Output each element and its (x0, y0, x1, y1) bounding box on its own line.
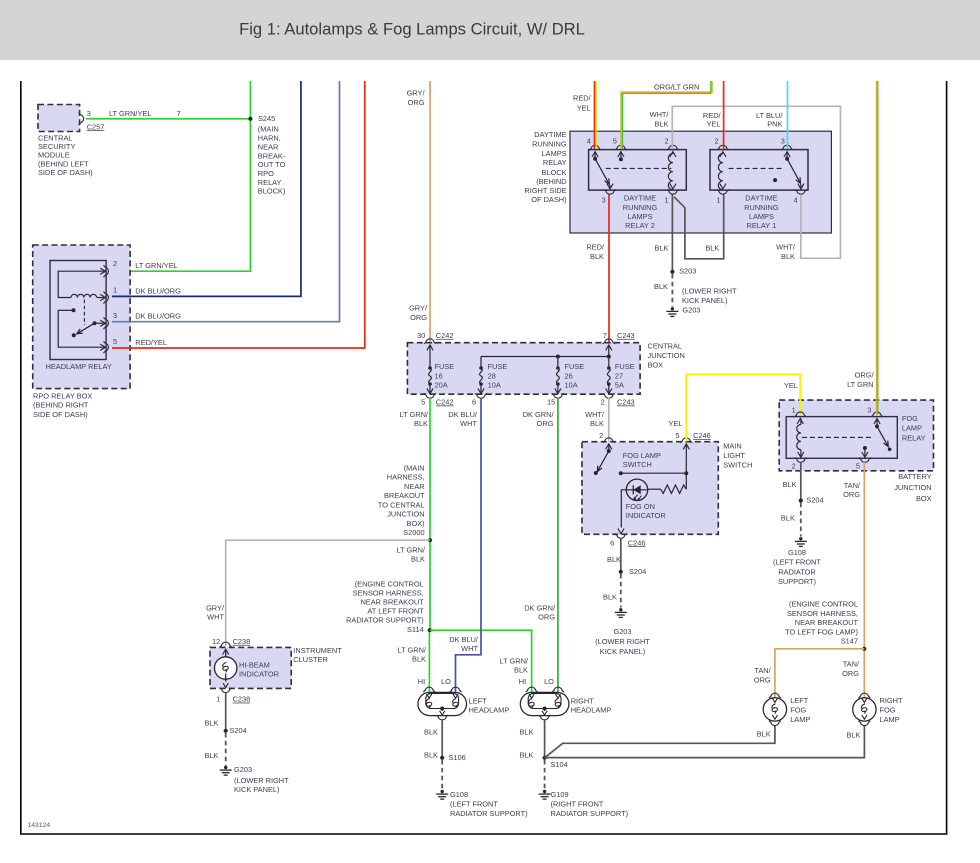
svg-text:ORG: ORG (842, 669, 859, 678)
svg-text:TAN/: TAN/ (844, 481, 861, 490)
svg-text:LO: LO (544, 677, 554, 686)
svg-text:16: 16 (435, 371, 443, 380)
ground G203 (lower right kick panel) (666, 307, 678, 316)
fuse 16 20A (429, 345, 431, 367)
svg-text:G108: G108 (450, 790, 468, 799)
splice S204 (cluster ground) (224, 729, 228, 733)
wire BLK (dashed) : S204 to G203 (620, 574, 622, 608)
svg-text:LAMP: LAMP (790, 715, 810, 724)
svg-text:WHT: WHT (460, 419, 477, 428)
svg-text:LT GRN/: LT GRN/ (500, 656, 529, 665)
svg-text:RADIATOR SUPPORT): RADIATOR SUPPORT) (346, 616, 424, 625)
svg-text:C238: C238 (233, 637, 251, 646)
svg-text:C243: C243 (617, 331, 635, 340)
svg-text:S203: S203 (679, 266, 696, 275)
svg-text:26: 26 (565, 371, 573, 380)
svg-text:DK BLU/ORG: DK BLU/ORG (135, 286, 181, 295)
svg-text:3: 3 (113, 311, 117, 320)
svg-text:RELAY: RELAY (543, 158, 567, 167)
svg-text:BLK: BLK (783, 480, 797, 489)
wire ORG/LT GRN : top edge to relay2 pin5 (621, 81, 712, 149)
svg-text:ORG: ORG (754, 675, 771, 684)
fog lamp relay pin 2 (bottom) (798, 452, 804, 457)
svg-text:BATTERY: BATTERY (898, 472, 931, 481)
svg-text:BLK: BLK (514, 665, 528, 674)
svg-text:DK GRN/: DK GRN/ (524, 603, 556, 612)
svg-text:G109: G109 (551, 790, 569, 799)
svg-text:(LEFT FRONT: (LEFT FRONT (773, 558, 821, 567)
wire TAN/ORG : S147 branch to left fog lamp (775, 649, 864, 698)
LED indicator: FOG ON INDICATOR (626, 479, 647, 500)
svg-text:LT GRN/YEL: LT GRN/YEL (109, 109, 151, 118)
svg-text:RELAY: RELAY (258, 178, 282, 187)
svg-text:27: 27 (615, 371, 623, 380)
wire TAN/ORG : fog relay pin5 to S147 and fog lamps (863, 462, 865, 697)
svg-text:NEAR BREAKOUT: NEAR BREAKOUT (360, 598, 424, 607)
svg-text:3: 3 (781, 136, 785, 145)
wire GRY/WHT : S2000 to instrument cluster pin12 (226, 540, 430, 646)
svg-text:28: 28 (488, 371, 496, 380)
svg-text:FUSE: FUSE (435, 362, 455, 371)
splice S114 (428, 628, 432, 632)
svg-text:FOG LAMP: FOG LAMP (623, 451, 661, 460)
svg-text:G203: G203 (234, 765, 252, 774)
svg-text:7: 7 (177, 109, 181, 118)
svg-text:BLK: BLK (655, 244, 669, 253)
wire LT GRN/YEL : C257 pin3 to splice S245 (86, 118, 250, 120)
svg-text:LT GRN/: LT GRN/ (400, 410, 429, 419)
right fog lamp filament (861, 704, 867, 714)
svg-text:OUT TO: OUT TO (258, 160, 286, 169)
module: main light switch (dashed) (582, 442, 718, 535)
svg-text:LAMP: LAMP (902, 424, 922, 433)
svg-text:(MAIN: (MAIN (404, 463, 425, 472)
svg-text:BLOCK: BLOCK (542, 168, 567, 177)
wire GRY/ORG : top edge down to CJB C242 pin 30 (429, 81, 431, 342)
svg-text:5: 5 (421, 398, 425, 407)
wire LT GRN/BLK : C242 pin5 through S2000 and S114 to left headlamp HI (429, 398, 431, 631)
wire RED/YEL : headlamp relay pin5 to top edge (112, 81, 365, 348)
svg-text:2: 2 (113, 259, 117, 268)
internal contact rail (621, 472, 687, 474)
svg-text:LEFT: LEFT (469, 696, 488, 705)
svg-text:LAMPS: LAMPS (627, 212, 652, 221)
right headlamp HI filament (529, 694, 534, 698)
fuse 28 10A (480, 357, 482, 367)
svg-text:(LOWER RIGHT: (LOWER RIGHT (234, 776, 289, 785)
svg-text:30: 30 (417, 331, 425, 340)
DRL relay2 pin 1 (bottom) (670, 184, 676, 189)
headlamp relay coil (71, 294, 97, 297)
svg-text:HEADLAMP: HEADLAMP (571, 706, 612, 715)
svg-text:JUNCTION: JUNCTION (387, 510, 424, 519)
svg-text:5: 5 (113, 337, 117, 346)
svg-text:KICK PANEL): KICK PANEL) (600, 647, 645, 656)
relay2 coil (pin2 to pin1) (672, 151, 674, 153)
svg-text:BLK: BLK (520, 727, 534, 736)
svg-text:SUPPORT): SUPPORT) (778, 577, 816, 586)
svg-text:RIGHT: RIGHT (571, 696, 594, 705)
svg-text:BLK: BLK (520, 751, 534, 760)
relay: fog lamp relay inner box (786, 417, 897, 459)
svg-text:GRY/: GRY/ (407, 88, 426, 97)
fog relay pin5 contact stub (863, 446, 867, 450)
wire DK GRN/ORG : pin15 to right headlamp LO (557, 398, 559, 693)
switch pin 5 (680, 438, 692, 443)
LED to pin 6 (621, 490, 626, 528)
svg-text:SIDE OF DASH): SIDE OF DASH) (33, 410, 88, 419)
svg-text:LIGHT: LIGHT (723, 451, 745, 460)
svg-text:HEADLAMP: HEADLAMP (469, 706, 510, 715)
wire RED/BLK : relay2 pin3 to CJB C243 pin7 (608, 195, 610, 343)
svg-text:INSTRUMENT: INSTRUMENT (293, 646, 342, 655)
headlamp relay pin 2 (arc+arrow) (100, 268, 105, 274)
svg-text:MODULE: MODULE (38, 151, 70, 160)
svg-text:(MAIN: (MAIN (258, 125, 279, 134)
svg-text:RELAY: RELAY (902, 433, 926, 442)
wire DK BLU/ORG : headlamp relay pin3 to top edge (112, 81, 340, 322)
wire BLK : switch pin6 to S204 (620, 538, 622, 572)
svg-text:BLK: BLK (781, 252, 795, 261)
svg-text:NEAR: NEAR (404, 482, 425, 491)
svg-text:(BEHIND LEFT: (BEHIND LEFT (38, 159, 89, 168)
svg-text:SENSOR HARNESS,: SENSOR HARNESS, (787, 609, 858, 618)
right fog lamp top pin (858, 693, 870, 698)
left headlamp HI pin (423, 687, 435, 692)
svg-text:12: 12 (212, 637, 220, 646)
headlamp relay internal: pin2 path and coil to pin1 (58, 271, 106, 297)
svg-text:ORG/LT GRN: ORG/LT GRN (654, 82, 699, 91)
fog relay mechanical link (dashed) (802, 436, 874, 438)
svg-text:Fig 1: Autolamps & Fog Lamps C: Fig 1: Autolamps & Fog Lamps Circuit, W/… (239, 20, 585, 39)
svg-text:3: 3 (602, 195, 606, 204)
right headlamp LO filament (555, 694, 560, 698)
svg-text:5: 5 (675, 431, 679, 440)
svg-text:SIDE OF DASH): SIDE OF DASH) (38, 168, 93, 177)
module: instrument cluster (dashed) (210, 647, 291, 688)
svg-text:YEL: YEL (669, 419, 683, 428)
fog relay coil pin1-pin2 (800, 418, 802, 424)
headlamp relay pin 3 (arc+arrow) (100, 320, 105, 326)
svg-text:RPO: RPO (258, 169, 274, 178)
left headlamp LO pin (450, 687, 462, 692)
svg-text:BLK: BLK (412, 654, 426, 663)
svg-text:DAYTIME: DAYTIME (534, 130, 566, 139)
svg-text:WHT/: WHT/ (650, 110, 670, 119)
svg-text:HI-BEAM: HI-BEAM (239, 660, 270, 669)
svg-text:DK BLU/: DK BLU/ (448, 410, 478, 419)
svg-text:BLK: BLK (205, 751, 219, 760)
lamp: right fog lamp (853, 698, 876, 721)
svg-text:143124: 143124 (28, 822, 51, 829)
wire BLK : fog relay pin2 to S204 (800, 462, 802, 500)
svg-text:BLK: BLK (603, 592, 617, 601)
svg-text:BREAKOUT: BREAKOUT (384, 491, 425, 500)
svg-text:C242: C242 (436, 398, 454, 407)
wire BLK (dashed) : S204 to G203 (225, 733, 227, 766)
svg-text:6: 6 (472, 398, 476, 407)
svg-text:FOG: FOG (790, 706, 806, 715)
DRL relay1 pin 3 (781, 145, 793, 150)
svg-text:5: 5 (856, 461, 860, 470)
svg-text:WHT/: WHT/ (776, 242, 796, 251)
wire YEL continuation into battery junction box (799, 399, 801, 415)
svg-text:LT BLU/: LT BLU/ (756, 111, 783, 120)
svg-text:(LOWER RIGHT: (LOWER RIGHT (682, 287, 737, 296)
svg-text:RED/: RED/ (573, 94, 592, 103)
svg-text:NEAR BREAKOUT: NEAR BREAKOUT (795, 618, 859, 627)
left headlamp common return (440, 707, 444, 711)
connector pin 6 (bottom) (478, 388, 484, 393)
right fog lamp bottom pin (858, 721, 870, 726)
svg-text:(BEHIND RIGHT: (BEHIND RIGHT (33, 401, 89, 410)
svg-text:BLK: BLK (590, 419, 604, 428)
svg-text:1: 1 (792, 405, 796, 414)
fog lamp switch contact and arm (608, 444, 610, 451)
svg-text:10A: 10A (488, 381, 501, 390)
svg-text:LEFT: LEFT (790, 696, 809, 705)
svg-text:INDICATOR: INDICATOR (626, 511, 666, 520)
svg-text:4: 4 (587, 136, 591, 145)
svg-text:2: 2 (792, 461, 796, 470)
headlamp relay pin 1 (arc+arrow) (100, 294, 105, 300)
header band (0, 0, 980, 60)
svg-text:ORG: ORG (537, 419, 554, 428)
cluster connector C238 pin 12 (220, 642, 232, 647)
wire WHT/BLK : relay2 pin2 loop to relay1 pin4 (672, 106, 840, 258)
svg-text:BLK: BLK (847, 730, 861, 739)
DRL relay1 pin 4 (bottom) (800, 184, 802, 190)
left fog lamp bottom pin (769, 721, 781, 726)
svg-text:HI: HI (418, 677, 425, 686)
svg-text:KICK PANEL): KICK PANEL) (234, 785, 279, 794)
svg-text:BLK: BLK (757, 729, 771, 738)
switch pin5 feed line (685, 444, 687, 489)
fuse 27 5A (608, 345, 610, 367)
svg-text:BLK: BLK (205, 718, 219, 727)
svg-text:S114: S114 (407, 625, 424, 634)
svg-text:BLK: BLK (654, 282, 668, 291)
lamp: left fog lamp (763, 698, 786, 721)
svg-text:RIGHT SIDE: RIGHT SIDE (524, 186, 566, 195)
svg-text:RED/YEL: RED/YEL (135, 338, 167, 347)
left fog lamp top pin (769, 693, 781, 698)
svg-text:INDICATOR: INDICATOR (239, 669, 279, 678)
svg-text:S204: S204 (806, 495, 823, 504)
svg-text:SWITCH: SWITCH (723, 460, 752, 469)
svg-text:LT GRN/: LT GRN/ (397, 545, 426, 554)
svg-text:C242: C242 (436, 331, 454, 340)
connector C242 pin 30 (424, 339, 436, 344)
svg-text:ORG: ORG (538, 612, 555, 621)
DRL relay2 pin 2 (667, 145, 679, 150)
resistor (fog on indicator) (661, 485, 687, 493)
svg-text:RADIATOR SUPPORT): RADIATOR SUPPORT) (450, 809, 528, 818)
svg-text:LAMPS: LAMPS (542, 149, 567, 158)
svg-text:BLK: BLK (607, 555, 621, 564)
left headlamp LO filament (453, 694, 458, 698)
lamp: left headlamp (418, 692, 467, 715)
wire LT BLU/PNK : top edge to relay1 pin3 (787, 81, 789, 149)
svg-text:FUSE: FUSE (488, 362, 508, 371)
svg-text:RADIATOR: RADIATOR (778, 567, 816, 576)
svg-text:3: 3 (867, 405, 871, 414)
svg-text:DAYTIME: DAYTIME (624, 194, 656, 203)
lamp: right headlamp (520, 692, 569, 715)
switch pin 2 (603, 438, 615, 443)
relay: daytime running lamps relay 2 (inner box) (589, 150, 687, 191)
splice S204 (switch ground) (619, 570, 623, 574)
svg-text:2: 2 (664, 136, 668, 145)
svg-text:DK BLU/: DK BLU/ (449, 635, 479, 644)
ground G203 (lower right kick panel) (615, 608, 627, 617)
splice S2000 (428, 538, 432, 542)
svg-text:20A: 20A (435, 381, 448, 390)
cluster connector C238 pin 1 (220, 688, 232, 693)
svg-text:PNK: PNK (767, 120, 782, 129)
svg-text:RPO RELAY BOX: RPO RELAY BOX (33, 391, 92, 400)
svg-text:G203: G203 (682, 306, 700, 315)
module: battery junction box (dashed) (779, 400, 933, 471)
svg-text:HARNESS,: HARNESS, (387, 473, 425, 482)
svg-text:TO LEFT FOG LAMP): TO LEFT FOG LAMP) (785, 628, 858, 637)
svg-text:S147: S147 (841, 637, 858, 646)
svg-text:GRY/: GRY/ (206, 603, 225, 612)
svg-text:DK GRN/: DK GRN/ (523, 410, 555, 419)
headlamp relay pin 5 (arc+arrow) (100, 344, 105, 350)
svg-text:2: 2 (601, 398, 605, 407)
svg-text:BLK: BLK (414, 419, 428, 428)
connector C243 pin 7 (603, 339, 615, 344)
svg-text:1: 1 (113, 286, 117, 295)
svg-text:TAN/: TAN/ (843, 660, 860, 669)
svg-text:3: 3 (87, 109, 91, 118)
svg-text:FOG: FOG (880, 706, 896, 715)
svg-text:FOG: FOG (902, 414, 918, 423)
svg-text:RED/: RED/ (703, 111, 722, 120)
svg-text:LAMPS: LAMPS (749, 212, 774, 221)
relay2 switch pivot and arm (594, 151, 596, 158)
wire BLK (dashed) : S204 to G108 (800, 503, 802, 537)
svg-text:BLK: BLK (590, 252, 604, 261)
svg-text:LT GRN/: LT GRN/ (398, 645, 427, 654)
wire YEL : switch pin5 to fog lamp relay pin1 (686, 374, 800, 441)
right headlamp common return (543, 707, 547, 711)
mechanical link (dashed) (83, 300, 85, 326)
svg-text:RADIATOR SUPPORT): RADIATOR SUPPORT) (551, 809, 629, 818)
svg-text:RELAY 2: RELAY 2 (625, 221, 655, 230)
wire WHT/BLK : C243 pin2 to fog lamp switch pin2 (608, 398, 610, 442)
svg-text:HARN,: HARN, (258, 134, 281, 143)
svg-text:1: 1 (716, 195, 720, 204)
svg-text:HI: HI (519, 677, 526, 686)
svg-text:S204: S204 (230, 726, 247, 735)
left headlamp HI filament (427, 694, 432, 698)
svg-text:JUNCTION: JUNCTION (894, 483, 931, 492)
fog lamp relay pin 5 (bottom) (862, 452, 868, 457)
svg-text:RIGHT: RIGHT (880, 696, 903, 705)
svg-text:AT LEFT FRONT: AT LEFT FRONT (367, 607, 424, 616)
svg-text:MAIN: MAIN (723, 441, 741, 450)
wire BLK : fog lamp grounds to S104 (545, 725, 775, 758)
svg-text:GRY/: GRY/ (409, 304, 428, 313)
module: central junction box (dashed) (407, 343, 640, 395)
relay1 coil (pin2 to pin1) (718, 154, 723, 190)
svg-text:FUSE: FUSE (565, 362, 585, 371)
wire BLK : left headlamp to S106 (441, 719, 443, 758)
svg-text:CENTRAL: CENTRAL (38, 133, 73, 142)
svg-text:BLK: BLK (411, 554, 425, 563)
svg-text:S2000: S2000 (403, 528, 424, 537)
wire DK BLU/WHT : pin6 to left headlamp LO (456, 398, 482, 693)
svg-text:(LEFT FRONT: (LEFT FRONT (450, 800, 498, 809)
wire BLK : right headlamp to S104 (544, 719, 546, 758)
ground G203 (lower right kick panel) (220, 766, 232, 775)
switch arm with arrowhead (77, 323, 95, 334)
svg-text:(BEHIND: (BEHIND (536, 177, 566, 186)
svg-text:KICK PANEL): KICK PANEL) (682, 296, 727, 305)
svg-text:ORG/: ORG/ (855, 370, 875, 379)
svg-text:C257: C257 (87, 122, 105, 131)
svg-text:5: 5 (613, 136, 617, 145)
svg-text:YEL: YEL (577, 103, 591, 112)
svg-text:1: 1 (664, 195, 668, 204)
svg-text:BOX: BOX (648, 361, 664, 370)
svg-text:(ENGINE CONTROL: (ENGINE CONTROL (355, 580, 424, 589)
svg-text:ORG: ORG (843, 490, 860, 499)
svg-text:HEADLAMP RELAY: HEADLAMP RELAY (46, 362, 112, 371)
svg-text:WHT: WHT (461, 644, 478, 653)
ground G108 (left front radiator support) (795, 537, 807, 546)
svg-text:ORG: ORG (410, 313, 427, 322)
cluster internal down arrow (223, 683, 228, 687)
relay box: RPO relay box (dashed) (33, 245, 130, 389)
wire BLK : cluster pin1 to S204 (225, 692, 227, 731)
svg-text:2: 2 (714, 136, 718, 145)
svg-text:1: 1 (216, 695, 220, 704)
wire RED/YEL : top edge to relay1 pin2 (723, 81, 725, 149)
svg-text:LT GRN/YEL: LT GRN/YEL (135, 261, 177, 270)
wire DK BLU/ORG : headlamp relay pin1 to top edge (112, 81, 301, 296)
relay2 pin5 stationary contact (620, 151, 622, 157)
module: daytime running lamps relay block (570, 131, 831, 233)
svg-text:FUSE: FUSE (615, 362, 635, 371)
connector C243 pin 2 (bottom) (606, 388, 612, 393)
svg-text:YEL: YEL (707, 120, 721, 129)
DRL relay2 pin 3 (bottom) (609, 185, 611, 190)
svg-text:RUNNING: RUNNING (744, 203, 779, 212)
svg-text:BLK: BLK (655, 119, 669, 128)
svg-text:S204: S204 (629, 567, 646, 576)
svg-text:DAYTIME: DAYTIME (745, 194, 777, 203)
svg-text:S245: S245 (258, 114, 275, 123)
wire BLK : relay1 pin1 loop to relay2 pin1 (674, 195, 724, 259)
svg-text:BLK: BLK (705, 244, 719, 253)
svg-text:15: 15 (547, 398, 555, 407)
svg-text:CENTRAL: CENTRAL (648, 342, 683, 351)
internal bus from fuse tops to C243 pin7 (481, 356, 609, 358)
hi-beam indicator bulb (215, 657, 237, 679)
fog lamp relay pin 1 (794, 412, 806, 417)
relay1 mechanical link (dashed) (729, 167, 782, 169)
svg-text:SWITCH: SWITCH (623, 460, 652, 469)
svg-text:FOG ON: FOG ON (626, 502, 655, 511)
svg-text:YEL: YEL (784, 381, 798, 390)
ground G109 (right front radiator support) (539, 790, 551, 799)
stationary contact stub (58, 309, 72, 311)
splice S203 (670, 270, 674, 274)
svg-text:6: 6 (610, 538, 614, 547)
